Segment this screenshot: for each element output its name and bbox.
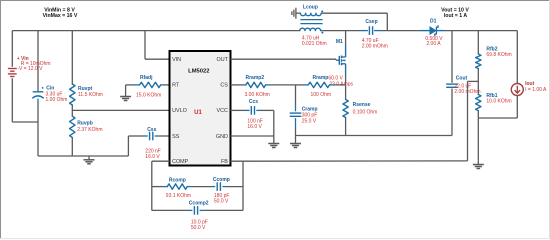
pin UVLO xyxy=(172,108,187,114)
svg-text:SS: SS xyxy=(172,134,180,140)
current source Iout xyxy=(511,84,523,96)
svg-text:RT: RT xyxy=(172,83,180,89)
svg-text:10.0 KOhm: 10.0 KOhm xyxy=(486,98,511,104)
svg-text:Iout = 1 A: Iout = 1 A xyxy=(444,13,468,19)
pin COMP xyxy=(172,159,189,165)
wire FB junction xyxy=(468,69,479,161)
label Ccomp xyxy=(213,177,230,205)
svg-text:COMP: COMP xyxy=(172,159,189,165)
svg-text:Ccomp2: Ccomp2 xyxy=(189,201,209,207)
wire CS to Rramp xyxy=(296,84,309,86)
svg-text:1.00 Ohm: 1.00 Ohm xyxy=(46,97,68,103)
svg-text:I = 1.00 A: I = 1.00 A xyxy=(525,87,547,93)
wire Cramp bottom xyxy=(295,118,297,135)
label Ccomp2 xyxy=(189,201,209,231)
resistor Rramp2 xyxy=(246,82,266,87)
wire Rfb2 top xyxy=(477,31,479,54)
wire Ccomp right xyxy=(222,186,243,188)
wire top rail Vin node xyxy=(12,30,300,32)
pin CS xyxy=(220,83,228,89)
wire Rramp2 to Cramp node xyxy=(266,84,296,86)
label M1 xyxy=(336,39,343,45)
wire VIN pin xyxy=(145,31,170,60)
svg-text:UVLO: UVLO xyxy=(172,108,187,114)
svg-text:D1: D1 xyxy=(430,19,437,25)
label Rfadj xyxy=(136,75,161,98)
label Rfb2 xyxy=(486,47,511,58)
pin VIN xyxy=(172,57,181,63)
label Cin xyxy=(46,85,68,103)
pin GND xyxy=(216,134,228,140)
wire Ccomp2 right xyxy=(200,209,243,211)
resistor Rfb2 xyxy=(476,54,481,69)
svg-text:93.1 KOhm: 93.1 KOhm xyxy=(166,193,191,199)
svg-text:Csep: Csep xyxy=(365,19,377,25)
pin FB xyxy=(221,159,228,165)
svg-text:15.0 KOhm: 15.0 KOhm xyxy=(136,92,161,98)
label Rsense xyxy=(353,102,378,115)
wire Ruvpt top xyxy=(71,31,73,84)
capacitor Ccs xyxy=(251,106,254,115)
transistor M1 xyxy=(339,45,345,74)
svg-text:GND: GND xyxy=(216,134,228,140)
wire Rramp to M1 source xyxy=(330,84,346,86)
wire rail Csep to D1 xyxy=(374,30,420,32)
voltage source Vin xyxy=(8,69,17,77)
label Ccs xyxy=(247,99,263,130)
label Rfb1 xyxy=(486,93,511,104)
svg-text:VCC: VCC xyxy=(217,108,228,114)
svg-text:100 Ohm: 100 Ohm xyxy=(311,92,332,98)
wire Ruvpb bottom xyxy=(71,138,73,157)
label Ruvpb xyxy=(77,121,102,134)
resistor Rramp xyxy=(308,82,329,87)
resistor Ruvpt xyxy=(70,84,75,105)
svg-text:U1: U1 xyxy=(194,110,202,116)
svg-text:Iout: Iout xyxy=(525,81,534,87)
resistor Rfadj xyxy=(140,82,161,87)
label Rramp xyxy=(311,75,332,98)
label Vin xyxy=(17,56,51,72)
wire M1 source to CS xyxy=(345,74,347,85)
resistor Rcomp xyxy=(167,184,187,189)
svg-text:Css: Css xyxy=(147,127,156,133)
wire UVLO node xyxy=(72,105,169,116)
resistor Rsense xyxy=(343,100,348,118)
wire comp left vertical xyxy=(151,161,153,210)
capacitor Csep xyxy=(369,26,372,35)
wire CS pin xyxy=(231,84,246,86)
capacitor Ccomp xyxy=(217,182,220,191)
label Rramp2 xyxy=(245,75,270,98)
wire rail L to Csep xyxy=(323,30,368,32)
svg-text:CS: CS xyxy=(220,83,228,89)
label D1 xyxy=(425,19,443,47)
label Lcoup xyxy=(302,5,327,47)
capacitor Cramp xyxy=(290,113,302,116)
svg-text:16.0 V: 16.0 V xyxy=(247,124,262,130)
svg-text:25.0 V: 25.0 V xyxy=(302,118,317,124)
label M1 stress xyxy=(328,75,353,87)
svg-text:VinMax = 16 V: VinMax = 16 V xyxy=(43,13,78,19)
inductor Lcoup top winding xyxy=(292,8,323,19)
label Ruvpt xyxy=(78,86,103,98)
wire top winding to sepic junction xyxy=(321,13,387,30)
wire M1 source to Rsense xyxy=(345,85,347,100)
svg-text:-V = 12.0 V: -V = 12.0 V xyxy=(17,66,43,72)
ground output xyxy=(473,161,484,169)
label Cout xyxy=(454,76,480,96)
wire Css to SS pin xyxy=(155,135,170,137)
svg-text:50.0 V: 50.0 V xyxy=(214,199,229,205)
pin OUT xyxy=(217,57,229,63)
label Css xyxy=(145,127,161,160)
input spec annotation xyxy=(43,7,78,19)
wire RT node xyxy=(126,84,170,86)
wire Iout column xyxy=(478,31,517,118)
ground Cramp xyxy=(290,136,301,148)
wire Rfb1 bottom xyxy=(477,111,479,161)
wire SS riser xyxy=(128,136,147,156)
svg-text:0.021 Ohm: 0.021 Ohm xyxy=(302,41,327,47)
wire Cramp drop xyxy=(295,85,297,111)
capacitor Css xyxy=(150,132,153,141)
label Iout xyxy=(525,81,547,93)
label Cramp xyxy=(302,107,318,125)
pin VCC xyxy=(217,108,228,114)
wire Cin column xyxy=(37,31,39,156)
label Csep xyxy=(362,19,388,50)
wire GND pin xyxy=(231,135,274,137)
wire FB net xyxy=(231,160,468,162)
svg-text:0.100 Ohm: 0.100 Ohm xyxy=(353,110,378,116)
svg-text:2.00 mOhm: 2.00 mOhm xyxy=(362,44,388,50)
wire Ccs to ground corner xyxy=(256,110,274,135)
wire bottom-left bus xyxy=(38,155,128,157)
svg-text:Ccomp: Ccomp xyxy=(213,177,230,183)
wire middle ground bus xyxy=(296,135,453,137)
svg-text:Lcoup: Lcoup xyxy=(303,5,318,11)
svg-text:Rramp2: Rramp2 xyxy=(246,75,265,81)
svg-text:Ruvpb: Ruvpb xyxy=(77,121,93,127)
label Rcomp xyxy=(166,178,191,200)
svg-text:Ccs: Ccs xyxy=(249,99,258,105)
wire Rcomp to Ccomp xyxy=(187,186,215,188)
ground Rfadj xyxy=(120,85,131,101)
wire Rsense bottom xyxy=(345,118,347,136)
inductor Lcoup bottom winding xyxy=(300,28,324,33)
svg-text:Rramp: Rramp xyxy=(313,75,329,81)
inductor Lcoup core xyxy=(300,20,322,24)
svg-text:11.5 KOhm: 11.5 KOhm xyxy=(78,92,103,98)
ground input bus xyxy=(84,156,95,164)
capacitor Cout xyxy=(446,84,458,87)
svg-text:3.00 KOhm: 3.00 KOhm xyxy=(245,92,270,98)
svg-text:50.0 V: 50.0 V xyxy=(191,225,206,231)
wire Cout column xyxy=(451,31,453,136)
svg-text:Rfadj: Rfadj xyxy=(140,75,153,81)
wire Vin column xyxy=(12,31,38,122)
svg-text:2.37 KOhm: 2.37 KOhm xyxy=(77,127,102,133)
wire COMP pin xyxy=(152,160,170,162)
wire M1 drain xyxy=(345,31,347,45)
capacitor Ccomp2 xyxy=(194,206,197,215)
wire VCC pin xyxy=(231,109,250,111)
wire comp right vertical xyxy=(242,161,244,211)
svg-text:2.00 A: 2.00 A xyxy=(426,41,441,47)
svg-text:Rcomp: Rcomp xyxy=(169,178,186,184)
svg-text:M1: M1 xyxy=(336,39,343,45)
svg-text:Cout: Cout xyxy=(456,76,468,82)
svg-text:16.0 V: 16.0 V xyxy=(145,154,160,160)
wire comp row2 left xyxy=(152,209,193,211)
resistor Rfb1 xyxy=(476,95,481,111)
svg-text:FB: FB xyxy=(221,159,228,165)
pin SS xyxy=(172,134,180,140)
svg-text:69.8 KOhm: 69.8 KOhm xyxy=(486,52,511,58)
ground Ccs GND xyxy=(268,136,279,148)
svg-text:LM5022: LM5022 xyxy=(188,69,209,75)
pin RT xyxy=(172,83,180,89)
svg-text:VIN: VIN xyxy=(172,57,181,63)
capacitor Cin xyxy=(33,87,44,98)
resistor Ruvpb xyxy=(70,116,75,137)
svg-text:60.0 V: 60.0 V xyxy=(328,75,343,81)
output spec annotation xyxy=(441,7,469,19)
diode D1 xyxy=(421,26,445,36)
IC U1 LM5022 body xyxy=(170,51,231,166)
wire OUT to gate xyxy=(231,59,340,60)
svg-text:Rsense: Rsense xyxy=(353,102,371,108)
wire comp row1 left xyxy=(152,186,168,188)
wire rail D1 to Iout xyxy=(445,30,518,32)
svg-text:Cin: Cin xyxy=(46,85,54,91)
svg-text:OUT: OUT xyxy=(217,57,229,63)
